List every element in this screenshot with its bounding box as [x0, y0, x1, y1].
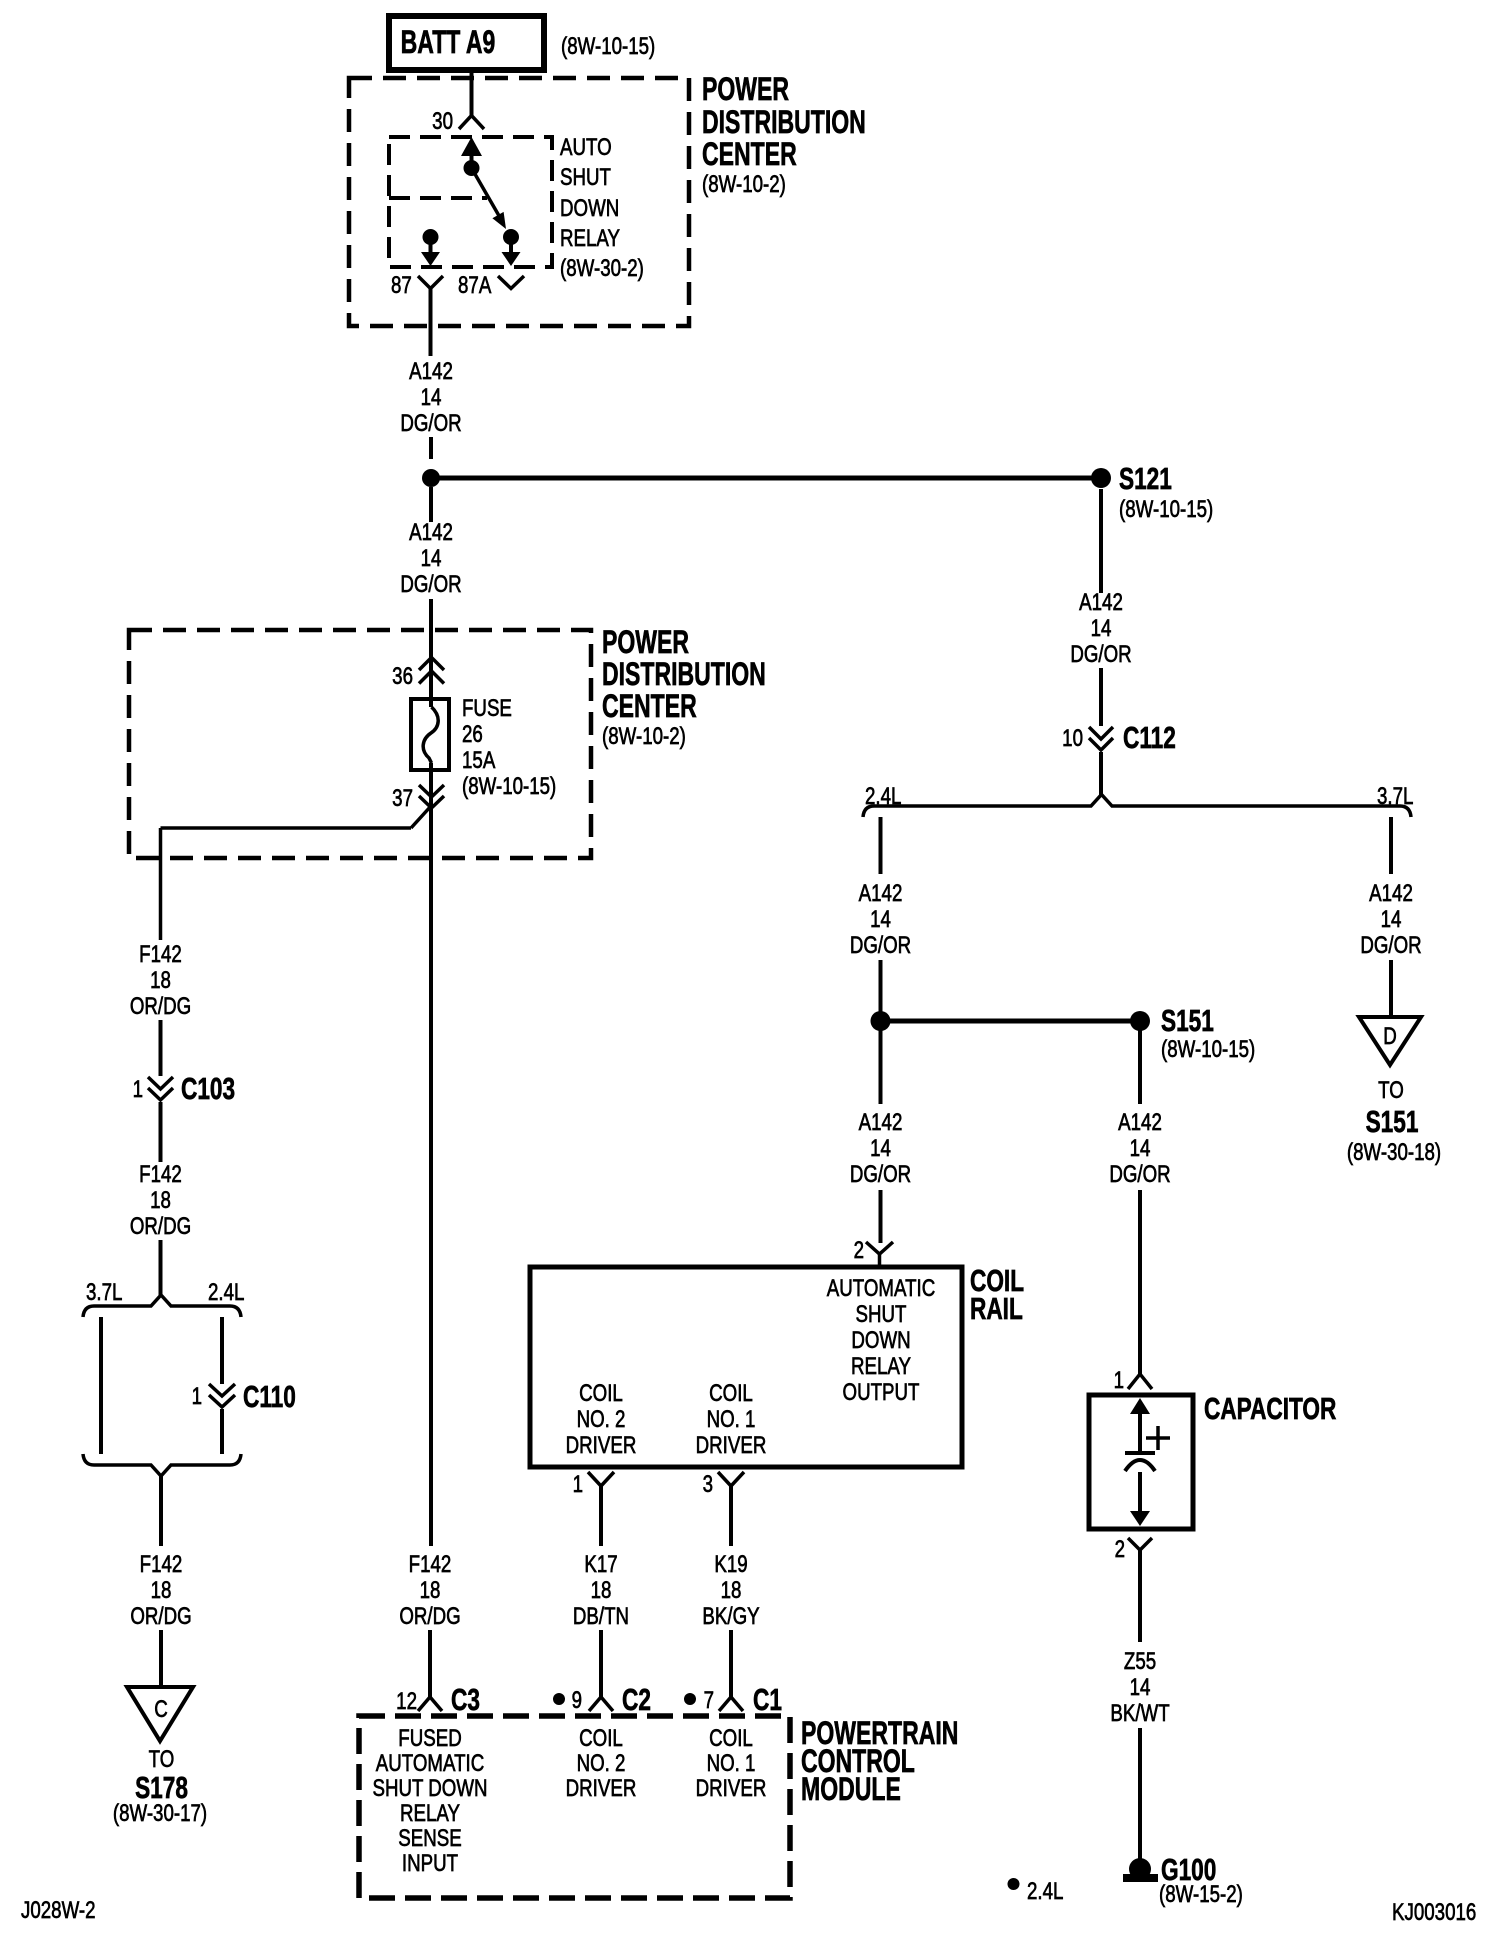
splice S121 node — [1091, 468, 1111, 488]
svg-text:DG/OR: DG/OR — [850, 932, 911, 959]
svg-text:DB/TN: DB/TN — [573, 1603, 629, 1630]
connector C110 chevrons — [209, 1384, 235, 1407]
svg-text:OR/DG: OR/DG — [399, 1603, 460, 1630]
pin 87A connector chevron — [498, 276, 524, 289]
label TO S151 (8W-30-18) — [1347, 1077, 1441, 1166]
pin 37 connector chevrons — [419, 785, 444, 808]
svg-text:POWER: POWER — [702, 71, 789, 107]
wire S151 down to capacitor — [1138, 1030, 1142, 1104]
wire below C110 — [220, 1409, 224, 1454]
svg-text:DG/OR: DG/OR — [400, 571, 461, 598]
svg-text:18: 18 — [420, 1577, 441, 1604]
svg-text:C3: C3 — [451, 1681, 480, 1716]
svg-text:18: 18 — [150, 1187, 171, 1214]
svg-text:A142: A142 — [409, 358, 453, 385]
wire into PDC fuse — [429, 599, 433, 707]
wire to S151 splice — [879, 960, 883, 1012]
wire to C112 — [1099, 668, 1103, 726]
svg-text:COIL: COIL — [579, 1725, 623, 1752]
connector C112 chevrons — [1089, 727, 1113, 750]
svg-text:COIL: COIL — [579, 1380, 623, 1407]
note 2.4L — [1008, 1878, 1064, 1905]
svg-text:NO. 2: NO. 2 — [577, 1406, 626, 1433]
svg-text:A142: A142 — [859, 880, 903, 907]
svg-text:9: 9 — [572, 1687, 582, 1714]
svg-text:14: 14 — [1130, 1674, 1151, 1701]
wire 2.4L branch down — [879, 817, 883, 874]
svg-text:BATT A9: BATT A9 — [401, 24, 496, 60]
svg-text:7: 7 — [704, 1687, 714, 1714]
svg-text:SHUT: SHUT — [560, 164, 611, 191]
wire to off-page connector C — [159, 1630, 163, 1687]
wire label A142 14 DG/OR (to capacitor) — [1109, 1109, 1170, 1188]
svg-text:(8W-10-2): (8W-10-2) — [602, 723, 686, 750]
svg-text:FUSE: FUSE — [462, 695, 512, 722]
svg-text:10: 10 — [1062, 725, 1083, 752]
svg-text:C103: C103 — [181, 1070, 235, 1105]
svg-text:18: 18 — [591, 1577, 612, 1604]
wire to engine split brace — [159, 1240, 163, 1296]
ground G100 — [1123, 1858, 1158, 1882]
wire label A142 14 DG/OR (to coil rail) — [850, 1109, 911, 1188]
pin 9 dot — [553, 1693, 565, 1705]
svg-text:3.7L: 3.7L — [1377, 783, 1413, 810]
svg-text:37: 37 — [392, 785, 413, 812]
splice S151 node — [1130, 1011, 1150, 1031]
relay switch blade (common to 87A) — [472, 168, 507, 229]
label G100 (8W-15-2) — [1159, 1851, 1243, 1907]
svg-text:COIL: COIL — [709, 1725, 753, 1752]
label S121 (8W-10-15) — [1119, 460, 1213, 522]
coil rail pin 2 connector — [866, 1242, 893, 1267]
pin 7 dot — [684, 1693, 696, 1705]
svg-text:(8W-30-18): (8W-30-18) — [1347, 1139, 1441, 1166]
svg-text:(8W-30-2): (8W-30-2) — [560, 255, 644, 282]
capacitor plates — [1125, 1453, 1155, 1471]
svg-text:A142: A142 — [1079, 589, 1123, 616]
svg-text:DRIVER: DRIVER — [696, 1432, 767, 1459]
wire K19 to PCM pin 7 — [729, 1630, 733, 1697]
capacitor internal top arrow — [1130, 1398, 1150, 1453]
label POWERTRAIN CONTROL MODULE — [801, 1715, 958, 1807]
off-page connector C triangle — [127, 1687, 193, 1741]
svg-text:C112: C112 — [1123, 719, 1176, 754]
relay 87 pin arrow — [421, 237, 440, 266]
svg-text:AUTO: AUTO — [560, 134, 612, 161]
svg-text:K19: K19 — [714, 1551, 747, 1578]
svg-text:C1: C1 — [753, 1681, 782, 1716]
svg-text:2: 2 — [854, 1237, 864, 1264]
label AUTOMATIC SHUT DOWN RELAY OUTPUT — [827, 1275, 935, 1406]
wire splice to S151 — [881, 1019, 1141, 1024]
wire below merge brace — [159, 1476, 163, 1546]
svg-text:RAIL: RAIL — [970, 1290, 1023, 1325]
svg-text:1: 1 — [192, 1383, 202, 1410]
svg-text:DRIVER: DRIVER — [566, 1775, 637, 1802]
wire 2.4L branch to C110 — [220, 1317, 224, 1384]
svg-text:OR/DG: OR/DG — [130, 993, 191, 1020]
relay common contact node — [464, 160, 480, 176]
svg-text:CAPACITOR: CAPACITOR — [1204, 1390, 1337, 1425]
svg-text:C2: C2 — [622, 1681, 651, 1716]
svg-text:3: 3 — [703, 1471, 713, 1498]
svg-text:RELAY: RELAY — [560, 225, 620, 252]
label COIL NO. 2 DRIVER (PCM) — [566, 1725, 637, 1802]
svg-text:DISTRIBUTION: DISTRIBUTION — [702, 104, 866, 140]
svg-text:AUTOMATIC: AUTOMATIC — [827, 1275, 935, 1302]
svg-text:OR/DG: OR/DG — [130, 1213, 191, 1240]
svg-text:3.7L: 3.7L — [86, 1279, 122, 1306]
svg-text:K17: K17 — [584, 1551, 617, 1578]
svg-text:(8W-10-15): (8W-10-15) — [1119, 496, 1213, 523]
wire 87 down to label A142 — [429, 289, 433, 356]
svg-text:F142: F142 — [139, 941, 182, 968]
wire C112 to engine split — [1099, 752, 1103, 795]
svg-text:CENTER: CENTER — [702, 136, 797, 172]
svg-text:(8W-15-2): (8W-15-2) — [1159, 1881, 1243, 1908]
relay 87A pin arrow — [502, 237, 521, 266]
pin 36 connector chevrons — [419, 658, 444, 684]
svg-text:DG/OR: DG/OR — [1360, 932, 1421, 959]
svg-text:KJ003016: KJ003016 — [1392, 1899, 1476, 1926]
wire to coil rail pin 2 — [879, 1190, 883, 1243]
svg-text:14: 14 — [1130, 1135, 1151, 1162]
wire below fuse — [429, 763, 433, 1546]
relay contact 87 node — [423, 229, 439, 245]
svg-text:DRIVER: DRIVER — [566, 1432, 637, 1459]
svg-text:INPUT: INPUT — [402, 1850, 458, 1877]
label COIL RAIL — [970, 1262, 1024, 1325]
svg-text:14: 14 — [1091, 615, 1112, 642]
svg-text:POWER: POWER — [602, 624, 689, 660]
svg-text:(8W-10-2): (8W-10-2) — [702, 171, 786, 198]
svg-text:18: 18 — [721, 1577, 742, 1604]
svg-text:15A: 15A — [462, 747, 496, 774]
svg-text:A142: A142 — [409, 519, 453, 546]
svg-text:DISTRIBUTION: DISTRIBUTION — [602, 656, 766, 692]
svg-text:BK/WT: BK/WT — [1110, 1700, 1169, 1727]
svg-text:18: 18 — [151, 1577, 172, 1604]
pin 12 connector chevron — [418, 1697, 442, 1711]
wire BATT A9 to pin 30 — [470, 70, 474, 115]
svg-text:14: 14 — [421, 545, 442, 572]
svg-text:J028W-2: J028W-2 — [21, 1897, 96, 1924]
svg-text:14: 14 — [1381, 906, 1402, 933]
svg-text:36: 36 — [392, 663, 413, 690]
svg-text:12: 12 — [396, 1688, 417, 1715]
label FUSED AUTOMATIC SHUT DOWN RELAY SENSE INPUT — [372, 1725, 487, 1877]
svg-text:DG/OR: DG/OR — [1070, 641, 1131, 668]
svg-text:14: 14 — [870, 906, 891, 933]
svg-text:AUTOMATIC: AUTOMATIC — [376, 1750, 484, 1777]
svg-text:1: 1 — [573, 1471, 583, 1498]
wire to off-page connector D — [1389, 960, 1393, 1017]
wire label A142 14 DG/OR (3.7L) — [1360, 880, 1421, 959]
svg-text:(8W-30-17): (8W-30-17) — [113, 1800, 207, 1827]
svg-text:RELAY: RELAY — [851, 1353, 911, 1380]
svg-text:NO. 2: NO. 2 — [577, 1750, 626, 1777]
label COIL NO. 1 DRIVER — [696, 1380, 767, 1459]
svg-text:2.4L: 2.4L — [208, 1279, 244, 1306]
off-page connector D triangle — [1359, 1017, 1421, 1065]
label COIL NO. 1 DRIVER (PCM) — [696, 1725, 767, 1802]
svg-text:F142: F142 — [140, 1551, 183, 1578]
svg-text:SHUT: SHUT — [856, 1301, 907, 1328]
svg-text:OR/DG: OR/DG — [130, 1603, 191, 1630]
svg-text:NO. 1: NO. 1 — [707, 1750, 756, 1777]
svg-text:DOWN: DOWN — [851, 1327, 910, 1354]
svg-text:26: 26 — [462, 721, 483, 748]
svg-text:SENSE: SENSE — [398, 1825, 461, 1852]
wire 3.7L branch down — [1389, 817, 1393, 874]
label FUSE 26 15A (8W-10-15) — [462, 695, 556, 800]
svg-text:TO: TO — [1378, 1077, 1404, 1104]
label POWER DISTRIBUTION CENTER (8W-10-2) top — [702, 71, 866, 197]
capacitor box — [1089, 1395, 1193, 1529]
label S151 (8W-10-15) — [1161, 1002, 1255, 1062]
svg-text:A142: A142 — [1369, 880, 1413, 907]
capacitor pin 2 connector chevron — [1128, 1538, 1152, 1550]
capacitor pin 1 connector chevron — [1128, 1374, 1152, 1389]
splice node (2.4L) — [871, 1011, 891, 1031]
svg-text:DG/OR: DG/OR — [850, 1161, 911, 1188]
svg-text:1: 1 — [133, 1076, 143, 1103]
wire 3.7L branch — [99, 1317, 103, 1454]
pin 7 connector chevron — [719, 1697, 743, 1711]
coil rail module box — [530, 1267, 962, 1467]
svg-text:S151: S151 — [1366, 1103, 1419, 1138]
wire label Z55 14 BK/WT — [1110, 1648, 1169, 1727]
relay contact 87A node — [503, 229, 519, 245]
wire to splice junction — [429, 437, 433, 459]
power distribution center box (top, dashed) — [349, 78, 689, 326]
splice node — [422, 469, 440, 487]
wire below C103 — [159, 1102, 163, 1162]
svg-text:DG/OR: DG/OR — [1109, 1161, 1170, 1188]
svg-text:2.4L: 2.4L — [1027, 1878, 1063, 1905]
svg-text:A142: A142 — [859, 1109, 903, 1136]
powertrain control module box (dashed) — [359, 1716, 790, 1898]
wire label F142 18 OR/DG (left second) — [130, 1161, 191, 1240]
wire K17 coil no 2 driver — [599, 1486, 603, 1546]
svg-text:(8W-10-15): (8W-10-15) — [561, 33, 655, 60]
wire splice to S121 — [431, 476, 1101, 481]
wire label F142 18 OR/DG (left upper) — [130, 941, 191, 1020]
engine merge brace — [83, 1454, 241, 1476]
svg-text:C: C — [154, 1696, 168, 1723]
svg-text:18: 18 — [150, 967, 171, 994]
engine split brace 3.7L/2.4L — [83, 1295, 241, 1317]
svg-text:RELAY: RELAY — [400, 1800, 460, 1827]
wire label F142 18 OR/DG (center bottom) — [399, 1551, 460, 1630]
svg-text:COIL: COIL — [709, 1380, 753, 1407]
svg-text:SHUT DOWN: SHUT DOWN — [372, 1775, 487, 1802]
wire splice down to coil rail — [879, 1030, 883, 1104]
svg-text:Z55: Z55 — [1124, 1648, 1156, 1675]
svg-text:14: 14 — [421, 384, 442, 411]
wire K19 coil no 1 driver — [729, 1486, 733, 1546]
label COIL NO. 2 DRIVER — [566, 1380, 637, 1459]
wire center column to PCM pin 12 — [428, 1630, 432, 1697]
svg-text:30: 30 — [432, 108, 453, 135]
wire to capacitor pin 1 — [1138, 1190, 1142, 1374]
svg-text:BK/GY: BK/GY — [702, 1603, 759, 1630]
svg-text:S151: S151 — [1161, 1002, 1214, 1037]
wire capacitor to Z55 — [1138, 1550, 1142, 1642]
svg-text:87A: 87A — [458, 272, 492, 299]
engine split brace 2.4L/3.7L (right side) — [863, 795, 1411, 818]
wire label A142 14 DG/OR (2.4L) — [850, 880, 911, 959]
svg-text:CENTER: CENTER — [602, 688, 697, 724]
svg-text:DRIVER: DRIVER — [696, 1775, 767, 1802]
wire label A142 14 DG/OR (second) — [400, 519, 461, 598]
wire K17 to PCM pin 9 — [599, 1630, 603, 1697]
label POWER DISTRIBUTION CENTER (8W-10-2) lower — [602, 624, 766, 749]
capacitor internal bottom arrow — [1130, 1472, 1150, 1526]
svg-text:2: 2 — [1115, 1536, 1125, 1563]
branch wire from pin 37 to left column — [161, 806, 432, 940]
connector C103 chevrons — [148, 1077, 173, 1100]
wire label A142 14 DG/OR (upper) — [400, 358, 461, 437]
svg-text:(8W-10-15): (8W-10-15) — [462, 773, 556, 800]
coil rail pin 1 connector — [588, 1472, 614, 1486]
relay pin 30 arrow into common contact — [461, 137, 482, 168]
auto shut down relay box (dashed) — [389, 137, 552, 267]
svg-text:F142: F142 — [409, 1551, 452, 1578]
svg-text:2.4L: 2.4L — [865, 783, 901, 810]
wire to C103 — [159, 1020, 163, 1076]
battery feed box BATT A9 — [389, 16, 544, 70]
wire label K17 18 DB/TN — [573, 1551, 629, 1630]
svg-text:(8W-10-15): (8W-10-15) — [1161, 1036, 1255, 1063]
pin 87 connector chevron — [418, 276, 443, 289]
svg-text:D: D — [1383, 1023, 1397, 1050]
svg-text:DOWN: DOWN — [560, 195, 619, 222]
svg-text:NO. 1: NO. 1 — [707, 1406, 756, 1433]
svg-text:MODULE: MODULE — [801, 1771, 901, 1807]
wire to ground G100 — [1138, 1728, 1142, 1862]
svg-text:C110: C110 — [243, 1378, 296, 1413]
svg-text:87: 87 — [391, 272, 412, 299]
pin 30 connector chevron — [459, 116, 484, 130]
label TO S178 (8W-30-17) — [113, 1746, 207, 1827]
svg-text:S121: S121 — [1119, 460, 1172, 495]
svg-text:OUTPUT: OUTPUT — [843, 1379, 920, 1406]
wire splice down — [429, 487, 433, 522]
pin 9 connector chevron — [589, 1697, 613, 1711]
svg-text:A142: A142 — [1118, 1109, 1162, 1136]
wire label A142 14 DG/OR (S121 branch) — [1070, 589, 1131, 668]
svg-text:F142: F142 — [139, 1161, 182, 1188]
svg-text:FUSED: FUSED — [398, 1725, 461, 1752]
power distribution center box (lower, dashed) — [129, 630, 591, 858]
fuse 26 15A — [411, 699, 449, 770]
wire C112 branch: S121 down — [1099, 489, 1103, 593]
svg-text:1: 1 — [1114, 1367, 1124, 1394]
coil rail pin 3 connector — [718, 1472, 744, 1486]
wire label K19 18 BK/GY — [702, 1551, 759, 1630]
wire label F142 18 OR/DG (left bottom) — [130, 1551, 191, 1630]
svg-text:14: 14 — [870, 1135, 891, 1162]
svg-text:DG/OR: DG/OR — [400, 410, 461, 437]
capacitor polarity plus — [1146, 1426, 1170, 1450]
label AUTO SHUT DOWN RELAY (8W-30-2) — [560, 134, 644, 282]
